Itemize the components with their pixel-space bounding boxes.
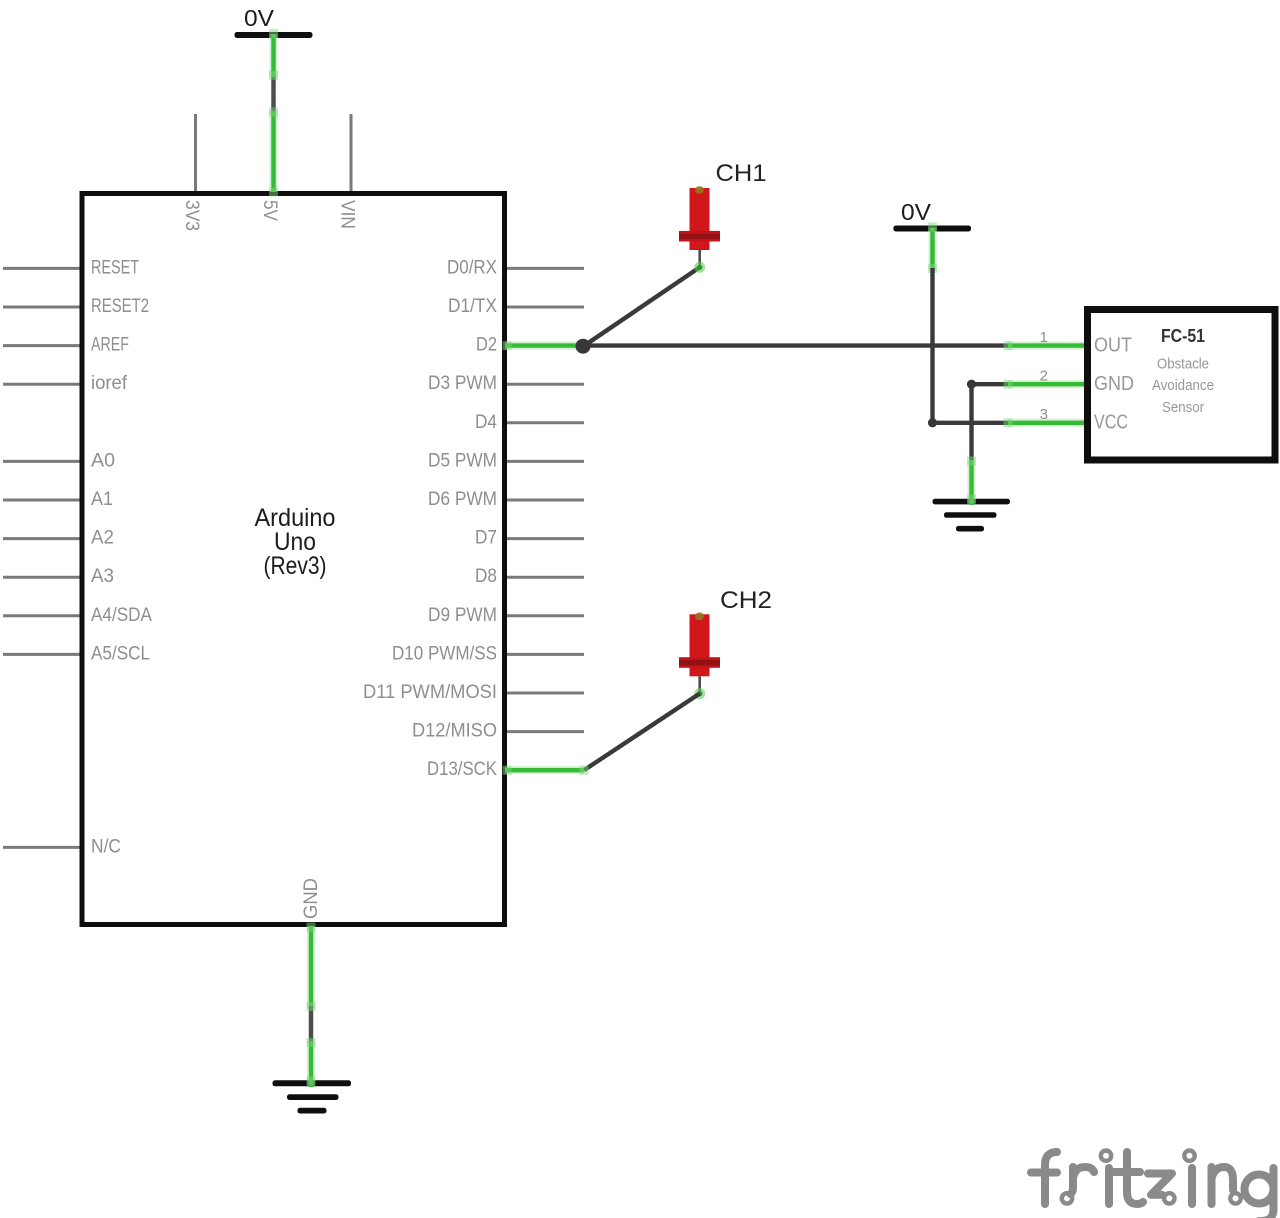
svg-text:RESET: RESET [91,257,139,278]
wire arduino GND pin down (green upper) [307,926,315,1008]
svg-text:D1/TX: D1/TX [448,296,497,317]
arduino U1 right pins [507,268,584,770]
wire FC-51 GND pin to corner (dark) [972,382,1011,386]
logo letter n [1208,1167,1216,1204]
svg-text:D11 PWM/MOSI: D11 PWM/MOSI [363,682,497,703]
svg-text:A5/SCL: A5/SCL [91,643,150,664]
fritzing logo [1031,1151,1274,1218]
FC-51 pin numbers 1 2 3 [1040,329,1048,423]
junction node on D2 net [576,339,591,354]
svg-text:FC-51: FC-51 [1161,325,1205,346]
svg-text:D2: D2 [476,335,497,356]
svg-text:D3 PWM: D3 PWM [428,373,497,394]
FC-51 pin 2 GND wire (green) [1004,380,1085,389]
svg-text:D13/SCK: D13/SCK [427,759,497,780]
logo letter i (second) [1188,1168,1196,1204]
wire D2 pin to junction (green) [503,341,579,350]
arduino U1 body [82,194,505,925]
svg-text:D8: D8 [475,566,497,587]
svg-text:D5 PWM: D5 PWM [428,450,497,471]
arduino U1 title Arduino Uno (Rev3) [255,504,336,580]
wire D13 pin to bendpoint (green) [503,766,589,775]
logo letter z [1148,1174,1172,1195]
svg-text:OUT: OUT [1094,335,1132,357]
wire junction to CH1 (dark diagonal) [583,267,700,346]
svg-text:D6 PWM: D6 PWM [428,489,497,510]
svg-text:N/C: N/C [91,836,121,857]
svg-text:CH2: CH2 [720,587,772,614]
FC-51 module body [1088,310,1276,461]
wire 0V to VCC corner (dark vertical) [930,268,934,423]
logo letter t [1127,1152,1143,1204]
svg-text:Sensor: Sensor [1162,399,1204,416]
svg-text:A0: A0 [91,450,115,471]
arduino U1 top pin labels [181,200,358,231]
connector CH2 (red plug) [679,613,720,700]
svg-text:0V: 0V [244,5,275,31]
FC-51 pin 1 OUT wire (green) [1004,341,1085,350]
svg-text:(Rev3): (Rev3) [264,552,327,580]
logo node rings [1062,1151,1241,1204]
svg-text:VCC: VCC [1094,412,1128,434]
svg-text:A4/SDA: A4/SDA [91,605,152,626]
arduino U1 right pin labels [363,257,497,780]
svg-text:A2: A2 [91,528,114,549]
svg-text:D4: D4 [475,412,497,433]
connector CH1 (red plug) [679,186,720,273]
bendpoint node on VCC net [928,418,937,427]
wire 0V symbol to 5V pin (green, lower segment) [270,111,278,192]
ground symbol (bottom) [273,1080,352,1113]
arduino U1 bottom pin GND [310,929,313,1006]
svg-text:A3: A3 [91,566,114,587]
svg-text:GND: GND [301,878,322,919]
svg-text:0V: 0V [901,199,932,225]
logo letter r [1071,1167,1074,1194]
svg-text:5V: 5V [259,200,280,221]
power symbol 0V (top, on 5V net) [235,5,313,113]
svg-text:3: 3 [1040,406,1048,423]
FC-51 pin 3 VCC wire (green) [1004,418,1085,427]
node connection markers on bottom GND net [307,923,316,1086]
arduino U1 top pins 3V3 5V VIN [196,114,352,191]
svg-text:RESET2: RESET2 [91,296,149,317]
arduino U1 left pin labels [91,257,152,857]
logo letter i [1105,1168,1113,1204]
wire junction to FC-51 OUT (dark horizontal) [583,343,1010,347]
svg-text:3V3: 3V3 [181,200,202,231]
svg-text:D9 PWM: D9 PWM [428,605,497,626]
svg-text:CH1: CH1 [716,160,767,187]
svg-text:D7: D7 [475,528,497,549]
svg-text:1: 1 [1040,329,1048,346]
wire 0V symbol stub (green) [928,223,937,274]
power symbol 0V (right, on VCC net) [893,199,971,232]
svg-text:D12/MISO: D12/MISO [412,721,497,742]
svg-text:D10 PWM/SS: D10 PWM/SS [392,643,497,664]
svg-text:2: 2 [1040,368,1048,385]
wire to ground symbol (green) [967,457,976,506]
svg-text:A1: A1 [91,489,113,510]
arduino U1 bottom pin label GND [301,878,322,919]
svg-text:VIN: VIN [337,200,358,229]
svg-text:Obstacle: Obstacle [1157,356,1209,373]
wire corner to VCC pin (dark horizontal) [933,421,1011,425]
ground symbol (right) [933,499,1011,532]
wire CH2 to bendpoint (dark diagonal) [584,694,700,771]
wire to bottom ground (green lower) [307,1041,315,1087]
logo letter f [1045,1152,1057,1204]
FC-51 description text [1152,356,1214,417]
svg-text:D0/RX: D0/RX [447,257,497,278]
node connection markers on 5V net [269,29,278,197]
wire corner down to ground (dark vertical) [969,384,973,462]
ground symbol pin (gray) [309,1006,314,1043]
svg-text:ioref: ioref [91,373,128,394]
svg-text:AREF: AREF [91,335,129,356]
svg-text:GND: GND [1094,373,1134,395]
wire 0V symbol to 5V pin (green, upper segment) [270,34,278,77]
bendpoint node on GND net [967,380,976,389]
logo letter g [1245,1175,1274,1204]
FC-51 pin labels OUT GND VCC [1094,335,1134,434]
arduino U1 left pins [3,268,80,847]
svg-text:Avoidance: Avoidance [1152,377,1214,394]
